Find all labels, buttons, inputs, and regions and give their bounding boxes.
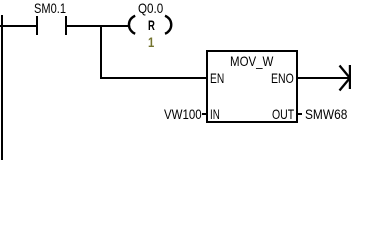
wire OUT tick xyxy=(296,113,302,115)
wire rail to contact xyxy=(0,25,36,27)
wire branch to EN xyxy=(100,77,207,79)
label SM0.1 xyxy=(34,1,66,15)
label MOV_W xyxy=(230,54,273,68)
label R xyxy=(148,18,155,32)
operand VW100 xyxy=(164,107,202,121)
pin EN xyxy=(210,71,224,85)
pin ENO xyxy=(271,71,294,85)
pin IN xyxy=(210,107,220,121)
label Q0.0 xyxy=(138,1,163,15)
MOV_W box xyxy=(206,50,298,123)
pin OUT xyxy=(272,107,294,121)
operand SMW68 xyxy=(305,107,347,121)
coil Q0.0 (reset) xyxy=(120,10,180,40)
arrow terminator xyxy=(334,60,358,96)
wire IN tick xyxy=(202,113,207,115)
wire ENO to arrow xyxy=(296,77,350,79)
left power rail xyxy=(1,15,3,160)
wire branch vertical xyxy=(100,25,102,79)
contact SM0.1 right bar xyxy=(65,16,67,35)
value 1 xyxy=(148,35,154,49)
wire contact to coil xyxy=(67,25,128,27)
contact SM0.1 left bar xyxy=(36,16,38,35)
